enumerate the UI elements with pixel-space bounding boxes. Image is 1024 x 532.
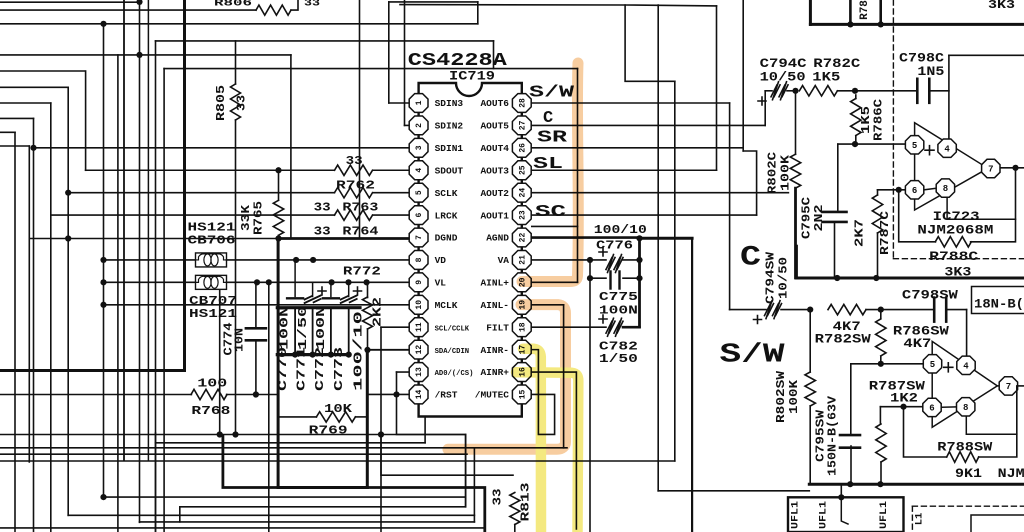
wire output top h [949, 54, 1024, 56]
highlighter yellow AINR+ trace [516, 372, 578, 532]
capacitor C776 [606, 255, 623, 273]
nothing [598, 259, 606, 261]
wire v 474 [473, 448, 475, 522]
svg-text:C771: C771 [296, 347, 309, 391]
wire h 226 [532, 225, 578, 227]
wire thick bus h bottom [0, 369, 185, 372]
wire C feed up [764, 91, 766, 126]
wire op-amp pin6-pin8 [925, 188, 936, 190]
wire C798C right lead [929, 90, 949, 92]
svg-text:R805: R805 [214, 85, 228, 121]
svg-text:5: 5 [930, 360, 935, 370]
svg-text:C772: C772 [314, 347, 327, 391]
junction [834, 275, 840, 281]
wire SDIN2 feed vertical [404, 0, 406, 125]
wire L1 h [0, 70, 84, 72]
wire R765 bottom [278, 235, 280, 238]
wire thick box left edge [277, 239, 280, 488]
pin 13 [409, 363, 428, 382]
wire SDOUT line [86, 169, 335, 171]
junction [100, 279, 106, 285]
svg-text:IC719: IC719 [449, 69, 495, 84]
svg-text:33: 33 [314, 201, 331, 215]
junction [587, 257, 593, 263]
capacitor C772 plate [323, 297, 339, 299]
wire bus v6 [103, 24, 105, 497]
wire bus h top1 [0, 1, 140, 3]
wire R787SW lead [879, 407, 881, 424]
svg-text:NJM2068M: NJM2068M [917, 222, 993, 237]
wire thick top box left [809, 0, 812, 24]
ferrite bead CB707 [196, 275, 227, 289]
wire top h line C [400, 5, 717, 6]
wire thick separator [797, 277, 1024, 280]
highlighter yellow AINR- trace [523, 349, 541, 532]
wire DGND thick [279, 237, 410, 240]
wire v 658 [657, 5, 659, 491]
wire C772 top lead [330, 282, 332, 296]
svg-text:R762: R762 [336, 179, 375, 193]
polarity + C773 [354, 287, 362, 295]
svg-text:SC: SC [535, 203, 566, 222]
wire SDIN1 line [34, 147, 410, 149]
wire AINR-//MUTEC hook [532, 350, 555, 435]
wire bus v12 [359, 0, 361, 239]
wire R786C top [855, 95, 857, 99]
svg-text:C: C [740, 243, 761, 274]
junction [30, 145, 36, 151]
pin 6 [409, 206, 428, 225]
wire VA line [532, 259, 590, 261]
svg-text:AINL+: AINL+ [480, 278, 509, 289]
wire SR pin26 h [532, 147, 743, 149]
junction [100, 494, 106, 500]
junction [636, 275, 642, 281]
svg-text:14: 14 [415, 389, 424, 399]
wire 2K2 bottom [367, 329, 369, 350]
wire dashed box bottom right v [911, 506, 913, 532]
wire to op-amp SW pin5 [851, 363, 923, 365]
svg-text:18: 18 [518, 322, 527, 332]
svg-text:33: 33 [346, 154, 363, 168]
wire C774 bottom [255, 341, 257, 395]
svg-text:1K2: 1K2 [890, 392, 918, 406]
resistor R782SW [828, 304, 866, 314]
wire feedback SW right [979, 386, 1017, 457]
wire h 461 [0, 460, 675, 462]
wire thick rail SW [809, 483, 1024, 486]
wire thick C776 box top [640, 237, 693, 240]
junction [293, 257, 299, 263]
pin 7 [409, 228, 428, 247]
pin 17 [512, 340, 531, 359]
junction [900, 404, 906, 410]
svg-text:4: 4 [963, 361, 969, 371]
svg-text:R763: R763 [342, 201, 378, 215]
svg-text:4: 4 [415, 168, 424, 173]
wire C776 right lead [623, 259, 640, 261]
wire dashed box bottom right h [912, 505, 1024, 507]
svg-text:MCLK: MCLK [435, 300, 458, 311]
pin 19 [512, 295, 531, 314]
wire jog v [477, 2, 479, 24]
wire C771 bottom lead [312, 308, 314, 355]
wire pin2 h [405, 124, 410, 126]
svg-text:3K3: 3K3 [944, 266, 971, 280]
svg-text:AINR-: AINR- [480, 345, 509, 356]
svg-text:AD0/(/CS): AD0/(/CS) [435, 370, 474, 378]
pin 11 [409, 318, 428, 337]
svg-text:AOUT1: AOUT1 [480, 210, 509, 221]
pin 14 [409, 385, 428, 404]
wire SDIN3 feed vertical [388, 2, 390, 103]
junction [266, 279, 272, 285]
svg-text:LRCK: LRCK [435, 210, 458, 221]
junction [878, 361, 884, 367]
svg-text:R772: R772 [343, 265, 381, 279]
wire C770 bottom lead [294, 308, 296, 355]
junction [100, 302, 106, 308]
wire 2K2 to pin12 [368, 349, 410, 351]
wire h 448 [0, 447, 567, 449]
svg-text:AOUT6: AOUT6 [480, 98, 509, 109]
wire stub R784C lead1 [849, 0, 852, 24]
wire L5 h [0, 131, 15, 133]
pin 20 [512, 273, 531, 292]
svg-text:4: 4 [944, 144, 950, 154]
svg-text:C798SW: C798SW [902, 289, 959, 303]
junction [873, 275, 879, 281]
wire v 692 [691, 238, 693, 532]
junction [232, 431, 238, 437]
svg-text:1K5: 1K5 [812, 71, 840, 85]
wire feedback left [899, 190, 936, 242]
wire h 454 [0, 453, 467, 455]
junction [847, 481, 853, 487]
resistor R802C [790, 154, 800, 188]
junction [346, 352, 352, 358]
resistor R768 [191, 389, 227, 399]
resistor R762 [335, 165, 373, 175]
junction [364, 279, 370, 285]
polarity + C782 [599, 315, 607, 323]
highlighter orange AINL+ trace [522, 63, 578, 282]
junction [310, 257, 316, 263]
svg-text:1: 1 [415, 100, 424, 105]
op-amp U723b triangle [932, 341, 997, 427]
resistor R786C [851, 99, 861, 136]
wire C794C right lead [787, 90, 796, 92]
wire v C774 branch [219, 282, 221, 435]
wire R787C lead [877, 190, 879, 195]
junction [852, 141, 858, 147]
wire feedback right [971, 168, 1016, 242]
svg-text:AOUT2: AOUT2 [480, 188, 509, 199]
junction [807, 307, 813, 313]
resistor R788C [935, 237, 971, 247]
wire SL feed up [716, 6, 718, 170]
junction [345, 279, 351, 285]
wire C776 left lead [590, 259, 606, 261]
box connector UFL [788, 497, 904, 532]
svg-text:R787C: R787C [878, 211, 892, 255]
pin 28 [512, 94, 531, 113]
pin 23 [512, 206, 531, 225]
wire thick box bottom [278, 486, 367, 489]
svg-text:100/10: 100/10 [353, 311, 366, 391]
wire bus v8 [139, 2, 141, 522]
highlighter orange AINL- trace [448, 305, 566, 450]
svg-text:AINR+: AINR+ [480, 367, 509, 378]
svg-text:100N: 100N [599, 304, 638, 318]
wire R768 right [227, 394, 279, 396]
svg-text:C798C: C798C [899, 52, 945, 66]
wire bus v10 [163, 69, 165, 532]
svg-text:NJM: NJM [998, 467, 1024, 481]
junction [136, 52, 142, 58]
wire h 497 [104, 496, 466, 498]
wire R787C top [878, 189, 906, 191]
pin 15 [512, 385, 531, 404]
junction [878, 307, 884, 313]
wire R787SW bottom [880, 462, 882, 484]
wire C770 top lead [294, 260, 296, 297]
svg-text:33: 33 [235, 95, 249, 111]
pin 2 [409, 116, 428, 135]
wire SC jog [743, 151, 756, 215]
svg-text:3K3: 3K3 [988, 0, 1015, 12]
svg-text:C794SW: C794SW [764, 251, 778, 304]
wire R805 top [235, 41, 237, 84]
junction [393, 391, 399, 397]
wire /RST line [367, 393, 409, 395]
svg-text:SL: SL [533, 155, 563, 174]
junction [328, 352, 334, 358]
op-amp SW pin 6 [923, 398, 941, 416]
wire R813 bottom [514, 525, 516, 532]
wire C774 top [255, 282, 257, 327]
resistor R788SW [947, 452, 979, 462]
capacitor C782 [606, 318, 623, 336]
svg-text:CB706: CB706 [188, 234, 236, 247]
junction [877, 481, 883, 487]
svg-text:10: 10 [415, 300, 424, 310]
svg-text:150N-B(63V: 150N-B(63V [826, 395, 840, 476]
svg-text:S/W: S/W [529, 84, 575, 103]
wire dashed separator vertical [892, 0, 894, 259]
wire v 155b [155, 433, 157, 532]
box inner bottom right [971, 515, 1024, 532]
wire thick box right edge [366, 350, 369, 488]
svg-text:2: 2 [415, 123, 424, 128]
wire 2K2 junction jog [366, 349, 368, 351]
wire MCLK line [104, 304, 410, 306]
wire bus h5 [0, 54, 291, 56]
svg-text:VA: VA [498, 255, 510, 266]
svg-text:33: 33 [304, 0, 320, 10]
wire C775 left lead [590, 277, 606, 279]
junction [896, 187, 902, 193]
svg-text:VD: VD [435, 255, 447, 266]
wire bus v3 [33, 118, 35, 532]
svg-text:100K: 100K [787, 379, 801, 414]
wire op-amp SW pin6-pin8 [942, 406, 956, 408]
svg-text:1/50: 1/50 [599, 352, 638, 366]
svg-text:AOUT5: AOUT5 [480, 121, 509, 132]
junction [378, 431, 384, 437]
resistor R787C [872, 195, 882, 233]
svg-text:2N2: 2N2 [812, 205, 826, 232]
wire thick stub [795, 246, 798, 278]
resistor R782C [799, 86, 837, 96]
svg-text:18N-B(: 18N-B( [974, 298, 1024, 312]
svg-text:AOUT4: AOUT4 [480, 143, 509, 154]
wire AINL- line [532, 304, 564, 306]
wire to op-amp pin5 [838, 143, 905, 145]
wire VD line right [227, 259, 410, 261]
svg-text:R764: R764 [342, 225, 378, 239]
svg-text:8: 8 [963, 403, 968, 413]
svg-text:6: 6 [415, 213, 424, 218]
wire SCL/CCLK line [381, 326, 410, 328]
svg-text:100N: 100N [279, 306, 292, 350]
svg-text:DGND: DGND [435, 233, 458, 244]
junction R765 top [275, 167, 281, 173]
wire bus h top3 [0, 23, 478, 25]
junction [636, 235, 642, 241]
wire stub R784C lead2 [879, 0, 882, 24]
junction [217, 431, 223, 437]
wire C794SW right lead [781, 309, 810, 311]
wire L4 h [0, 117, 34, 119]
wire R786SW bottom [880, 356, 882, 364]
wire 2K2 top [367, 282, 369, 297]
wire AD0 line [397, 371, 410, 373]
junction [847, 21, 853, 27]
wire C795SW bottom [850, 446, 852, 484]
wire op-amp SW pin8 to output [966, 417, 1017, 434]
wire cap bank common plate [277, 306, 360, 309]
wire R769 left [278, 416, 316, 418]
wire R806 left [0, 9, 256, 11]
pin 22 [512, 228, 531, 247]
wire h 443 [156, 442, 426, 444]
wire R769 right [356, 416, 368, 418]
wire R764 to pin6 [373, 214, 410, 216]
op-amp SW pin 4 [957, 356, 975, 374]
svg-text:R813: R813 [519, 483, 533, 522]
wire C794SW left lead [730, 309, 766, 311]
wire v 180 [179, 507, 181, 522]
svg-text:24: 24 [518, 188, 527, 198]
svg-text:R802C: R802C [766, 152, 780, 194]
wire thick bus vertical [183, 0, 186, 371]
svg-text:C776: C776 [596, 239, 633, 253]
wire thick top box bottom [810, 23, 1024, 26]
wire to C795SW [850, 364, 852, 435]
svg-text:C775: C775 [599, 290, 638, 304]
wire R805 bottom long [235, 120, 237, 435]
svg-text:8: 8 [943, 184, 948, 194]
wire h 522 [140, 521, 475, 523]
wire to connector [840, 484, 842, 497]
wire connector pin [841, 497, 848, 524]
op-amp SW + sign [944, 363, 953, 372]
wire AINL+ h (under CS4228A) [164, 68, 577, 70]
wire C771 top lead [312, 282, 314, 296]
wire bus v5 [67, 87, 69, 515]
wire SR feed up [742, 0, 744, 151]
svg-text:1/50: 1/50 [297, 306, 310, 350]
wire feedback SW left [904, 407, 947, 457]
wire AINL+ vertical [577, 69, 579, 283]
op-amp U723a triangle [915, 123, 988, 210]
wire S/W pin28 h [532, 102, 730, 104]
svg-text:FILT: FILT [486, 322, 509, 333]
svg-text:SR: SR [537, 129, 568, 148]
svg-text:6: 6 [929, 404, 934, 414]
svg-text:AOUT3: AOUT3 [480, 165, 509, 176]
wire R786SW top [880, 310, 882, 319]
wire C794C left lead [765, 90, 772, 92]
op-amp pin 8 [936, 179, 954, 197]
polarity + C794C [758, 97, 766, 105]
wire R802C bottom thick [794, 188, 797, 278]
svg-text:SDIN3: SDIN3 [435, 98, 464, 109]
svg-text:R782C: R782C [813, 57, 861, 71]
svg-text:33: 33 [314, 225, 331, 239]
wire op-amp out [988, 167, 991, 169]
wire v pin11 feed [380, 327, 382, 532]
wire bus v4 [50, 103, 52, 532]
wire to C798C [837, 90, 917, 92]
ferrite bead CB706 [196, 253, 227, 267]
svg-text:5: 5 [415, 190, 424, 195]
junction [792, 88, 798, 94]
pin 24 [512, 183, 531, 202]
svg-text:9K1: 9K1 [955, 467, 982, 481]
svg-text:21: 21 [518, 255, 527, 265]
capacitor C798SW [934, 298, 946, 322]
op-amp pin 4 [938, 139, 956, 157]
svg-text:2K2: 2K2 [371, 297, 385, 327]
wire R802SW bottom [809, 406, 811, 484]
svg-text:22: 22 [518, 233, 527, 243]
wire jog down [625, 5, 675, 81]
wire v 466 [465, 435, 467, 507]
polarity + C794SW [754, 316, 762, 324]
wire bus v11 [268, 282, 270, 532]
junction [253, 391, 259, 397]
wire output h [1001, 167, 1024, 169]
svg-text:R802SW: R802SW [774, 370, 788, 423]
wire LRCK line [51, 214, 335, 216]
pin 16 [512, 363, 531, 382]
svg-text:7: 7 [988, 165, 993, 175]
wire thick corner [223, 436, 485, 532]
capacitor C774 [246, 328, 266, 340]
svg-text:1N5: 1N5 [917, 65, 944, 79]
wire C798SW right lead [947, 309, 967, 311]
svg-text:L1: L1 [914, 513, 926, 526]
svg-text:S/W: S/W [720, 341, 786, 371]
wire VL line left [104, 281, 196, 283]
junction [254, 279, 260, 285]
svg-text:2K7: 2K7 [853, 219, 867, 247]
pin 18 [512, 318, 531, 337]
wire output SW h [1019, 385, 1024, 387]
pin 8 [409, 251, 428, 270]
